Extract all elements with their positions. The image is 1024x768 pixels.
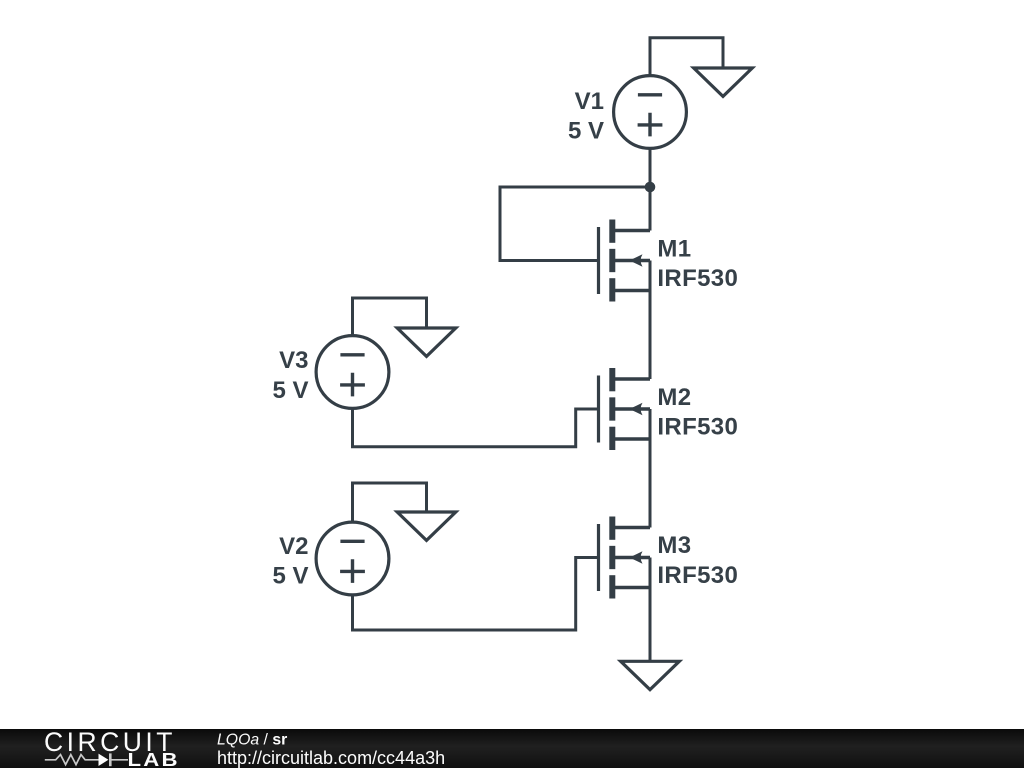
- logo LAB wordmark: [128, 750, 180, 768]
- wire gate feedback loop M1: [500, 187, 650, 261]
- transistor M3: [599, 517, 651, 599]
- svg-text:LAB: LAB: [128, 750, 180, 768]
- wire V1 bottom to node: [649, 148, 652, 187]
- node junction: [645, 182, 656, 193]
- transistor M1: [599, 220, 651, 302]
- wire V2 bottom to M3 gate: [353, 558, 599, 631]
- footer url: [217, 748, 445, 768]
- svg-text:IRF530: IRF530: [657, 562, 738, 589]
- ground V3: [397, 328, 456, 356]
- wire node to M1 drain: [649, 187, 652, 231]
- ground bottom: [621, 661, 680, 689]
- voltage source V1: [614, 76, 687, 149]
- voltage source V3: [316, 336, 389, 409]
- svg-text:http://circuitlab.com/cc44a3h: http://circuitlab.com/cc44a3h: [217, 748, 445, 768]
- svg-text:LQOa / sr: LQOa / sr: [217, 732, 287, 749]
- wire M2 source to M3 drain: [649, 409, 652, 528]
- wire V3 top to ground: [353, 298, 427, 336]
- svg-text:5 V: 5 V: [568, 117, 604, 144]
- svg-text:M1: M1: [657, 235, 691, 262]
- svg-text:M3: M3: [657, 532, 691, 559]
- svg-text:IRF530: IRF530: [657, 413, 738, 440]
- svg-text:5 V: 5 V: [272, 377, 308, 404]
- svg-text:M2: M2: [657, 384, 691, 411]
- voltage source V2: [316, 522, 389, 595]
- wire V2 top to ground: [353, 483, 427, 521]
- svg-text:V2: V2: [279, 533, 308, 560]
- transistor M2: [599, 368, 651, 450]
- svg-text:5 V: 5 V: [272, 562, 308, 589]
- footer bar: [0, 729, 1024, 768]
- svg-text:IRF530: IRF530: [657, 265, 738, 292]
- logo resistor and diode: [45, 753, 128, 766]
- svg-text:V3: V3: [279, 347, 308, 374]
- footer title LQOa / sr: [217, 732, 287, 749]
- wire V1 top to ground: [650, 38, 723, 76]
- wire M1 source to M2 drain: [649, 261, 652, 380]
- ground V2: [397, 512, 456, 540]
- logo CIRCUIT wordmark: [44, 727, 176, 757]
- wire M3 source to ground: [649, 558, 652, 662]
- ground top-right: [694, 68, 753, 96]
- wire V3 bottom to M2 gate: [353, 408, 599, 447]
- svg-text:V1: V1: [575, 88, 604, 115]
